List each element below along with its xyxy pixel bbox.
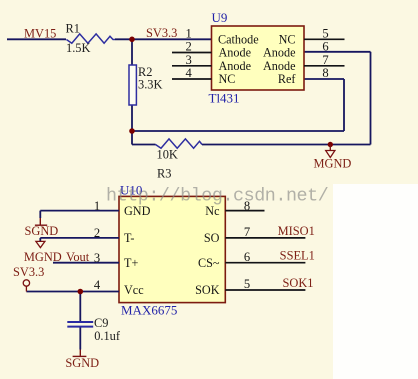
svg-text:MGND: MGND (314, 157, 352, 171)
svg-text:SV3.3: SV3.3 (13, 265, 44, 279)
svg-text:Ref: Ref (278, 72, 297, 86)
svg-text:5: 5 (322, 27, 328, 41)
svg-text:Anode: Anode (219, 59, 252, 73)
svg-text:T-: T- (124, 231, 134, 245)
svg-text:R1: R1 (66, 22, 80, 36)
svg-text:3.3K: 3.3K (138, 78, 162, 92)
svg-text:8: 8 (322, 66, 328, 80)
svg-text:T+: T+ (124, 256, 138, 270)
svg-text:3: 3 (185, 53, 191, 67)
svg-text:MGND: MGND (24, 250, 62, 264)
svg-text:6: 6 (244, 250, 250, 264)
svg-text:MV15: MV15 (24, 27, 56, 41)
svg-text:Cathode: Cathode (218, 32, 259, 46)
svg-text:2: 2 (185, 40, 191, 54)
svg-text:4: 4 (185, 66, 192, 80)
svg-text:Anode: Anode (263, 59, 296, 73)
svg-text:Anode: Anode (263, 46, 296, 60)
svg-text:SV3.3: SV3.3 (146, 26, 177, 40)
svg-text:10K: 10K (157, 148, 178, 162)
svg-text:Vcc: Vcc (124, 283, 144, 297)
svg-text:CS~: CS~ (198, 256, 220, 270)
svg-text:SGND: SGND (25, 224, 59, 238)
svg-text:0.1uf: 0.1uf (94, 329, 121, 343)
svg-text:R3: R3 (157, 167, 171, 181)
svg-text:SO: SO (204, 231, 220, 245)
svg-text:Vout: Vout (66, 250, 90, 264)
svg-text:4: 4 (94, 278, 101, 292)
svg-text:2: 2 (94, 226, 100, 240)
svg-text:SOK1: SOK1 (283, 276, 314, 290)
svg-text:Anode: Anode (219, 46, 252, 60)
svg-text:NC: NC (279, 32, 296, 46)
svg-text:3: 3 (94, 251, 100, 265)
svg-text:MISO1: MISO1 (278, 224, 315, 238)
svg-text:SSEL1: SSEL1 (280, 249, 315, 263)
svg-text:U9: U9 (212, 10, 228, 25)
svg-text:1: 1 (185, 27, 191, 41)
svg-text:SGND: SGND (65, 356, 99, 370)
svg-text:1.5K: 1.5K (66, 41, 90, 55)
svg-text:MAX6675: MAX6675 (121, 303, 177, 318)
svg-text:6: 6 (322, 40, 328, 54)
svg-text:Tl431: Tl431 (209, 91, 240, 106)
svg-text:SOK: SOK (195, 283, 220, 297)
svg-text:7: 7 (322, 53, 328, 67)
svg-text:C9: C9 (94, 316, 108, 330)
svg-text:NC: NC (219, 72, 236, 86)
svg-text:7: 7 (244, 225, 250, 239)
svg-text:http://blog.csdn.net/: http://blog.csdn.net/ (106, 186, 328, 207)
svg-text:1: 1 (94, 199, 100, 213)
svg-text:5: 5 (244, 277, 250, 291)
